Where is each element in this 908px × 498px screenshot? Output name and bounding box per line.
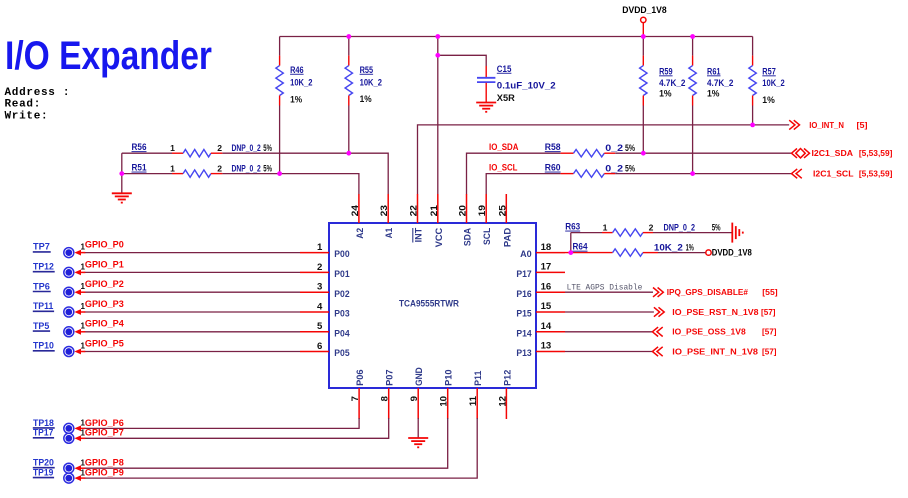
IC U1 TCA9555RTWR body: [329, 223, 536, 388]
svg-text:19: 19: [477, 205, 488, 216]
pin 25 PAD: [497, 194, 513, 247]
svg-text:10: 10: [439, 396, 450, 407]
svg-text:GPIO_P3: GPIO_P3: [85, 299, 124, 310]
junction: [641, 34, 646, 39]
svg-text:16: 16: [541, 281, 552, 292]
resistor R61 4.7K_2: [689, 37, 734, 174]
svg-text:C15: C15: [497, 64, 512, 74]
svg-text:P01: P01: [334, 269, 350, 280]
wire VCC to rail: [437, 37, 439, 195]
svg-text:R55: R55: [360, 65, 374, 75]
pin 12 P12: [497, 370, 513, 419]
svg-text:18: 18: [541, 242, 552, 253]
svg-text:DNP_0_2: DNP_0_2: [664, 222, 696, 232]
pin 19 SCL: [477, 194, 493, 245]
svg-text:1%: 1%: [686, 243, 694, 253]
pin 16 P16: [516, 281, 565, 299]
test point TP7: [33, 241, 86, 258]
svg-text:INT: INT: [414, 228, 425, 243]
svg-text:P05: P05: [334, 348, 350, 359]
off-page connector IPQ_GPS_DISABLE# [55]: [653, 287, 778, 297]
svg-text:TP7: TP7: [33, 241, 50, 252]
resistor R64 10K_2: [565, 242, 706, 257]
svg-text:R51: R51: [132, 163, 147, 173]
pin 10 P10: [439, 369, 455, 419]
junction: [568, 250, 573, 255]
svg-text:TP17: TP17: [33, 427, 53, 438]
svg-text:P16: P16: [516, 289, 531, 300]
svg-text:4.7K_2: 4.7K_2: [707, 78, 733, 88]
pin 23 A1: [379, 194, 395, 238]
svg-text:[57]: [57]: [762, 328, 777, 337]
svg-text:1%: 1%: [290, 95, 302, 105]
pin 14 P14: [516, 321, 565, 339]
junction: [346, 34, 351, 39]
pin 4 P03: [300, 301, 350, 319]
svg-text:GPIO_P5: GPIO_P5: [85, 338, 125, 349]
power symbol DVDD_1V8 right: [706, 248, 752, 258]
resistor R56 DNP_0_2: [122, 142, 272, 157]
svg-text:1%: 1%: [659, 89, 672, 99]
svg-text:R57: R57: [762, 66, 776, 76]
svg-text:1: 1: [317, 242, 323, 253]
svg-text:IO_SDA: IO_SDA: [489, 142, 519, 152]
wire IPQ_GPS_DISABLE# net: [565, 291, 653, 293]
svg-text:P00: P00: [334, 249, 349, 260]
svg-text:PAD: PAD: [502, 228, 513, 247]
svg-text:6: 6: [317, 341, 322, 352]
svg-text:[5,53,59]: [5,53,59]: [859, 170, 893, 179]
svg-text:12: 12: [497, 396, 508, 407]
svg-text:TP11: TP11: [33, 300, 53, 311]
pin 24 A2: [350, 194, 366, 239]
svg-text:P17: P17: [516, 269, 531, 280]
wire GPIO_P0 net: [85, 252, 301, 254]
junction: [641, 151, 646, 156]
ground below R51: [112, 193, 132, 202]
svg-text:GPIO_P4: GPIO_P4: [85, 319, 125, 330]
svg-text:GPIO_P2: GPIO_P2: [85, 279, 124, 290]
svg-text:22: 22: [409, 205, 420, 216]
svg-text:4.7K_2: 4.7K_2: [659, 78, 685, 88]
wire R58 to I2C1_SDA: [615, 152, 791, 154]
resistor R63 DNP_0_2: [565, 222, 732, 253]
svg-text:DVDD_1V8: DVDD_1V8: [712, 248, 752, 258]
svg-text:R61: R61: [707, 66, 721, 76]
net label GPIO_P5: [81, 338, 125, 350]
wire top power rail DVDD_1V8: [280, 36, 753, 38]
svg-text:10K_2: 10K_2: [360, 78, 382, 88]
net label GPIO_P6: [81, 418, 124, 429]
test point TP6: [33, 280, 86, 297]
svg-text:9: 9: [409, 396, 420, 401]
net label GPIO_P7: [81, 428, 124, 439]
pin 21 VCC: [429, 194, 445, 247]
test point TP20: [33, 457, 86, 474]
wire GPIO_P2 net: [85, 291, 301, 293]
off-page connector IO_PSE_RST_N_1V8 [57]: [654, 307, 776, 317]
svg-text:TP19: TP19: [33, 467, 53, 478]
svg-text:SDA: SDA: [463, 228, 474, 246]
svg-text:I2C1_SDA: I2C1_SDA: [812, 148, 854, 158]
svg-text:15: 15: [541, 301, 552, 312]
wire GPIO_P8 net: [85, 418, 448, 468]
svg-text:P06: P06: [355, 369, 366, 386]
resistor R60 0_2 5%: [545, 163, 635, 178]
svg-text:LTE AGPS Disable: LTE AGPS Disable: [567, 283, 643, 292]
pin 9 GND: [409, 367, 425, 419]
svg-text:5%: 5%: [625, 163, 635, 173]
svg-text:IO_PSE_RST_N_1V8: IO_PSE_RST_N_1V8: [672, 307, 759, 317]
svg-text:TP6: TP6: [33, 280, 50, 291]
wire GPIO_P6 net: [85, 418, 360, 428]
test point TP17: [33, 427, 86, 444]
svg-text:25: 25: [497, 204, 508, 216]
svg-text:1: 1: [170, 143, 175, 153]
pin 5 P04: [300, 321, 350, 339]
svg-text:8: 8: [380, 395, 391, 401]
svg-text:TP5: TP5: [33, 320, 49, 331]
svg-text:A0: A0: [520, 249, 532, 260]
svg-text:A2: A2: [355, 228, 366, 239]
pin 8 P07: [380, 369, 396, 419]
pin 17 P17: [516, 262, 565, 280]
svg-text:11: 11: [468, 395, 479, 406]
svg-text:7: 7: [350, 396, 361, 401]
net label GPIO_P0: [81, 240, 124, 252]
svg-text:P02: P02: [334, 289, 349, 300]
svg-text:13: 13: [541, 341, 552, 352]
svg-text:TP12: TP12: [33, 261, 54, 272]
net label GPIO_P9: [81, 468, 124, 479]
svg-text:0_2: 0_2: [605, 163, 623, 173]
pin 6 P05: [300, 341, 350, 359]
svg-text:Write:: Write:: [5, 111, 49, 123]
off-page connector I2C1_SCL [5,53,59]: [792, 169, 893, 179]
pin 15 P15: [516, 301, 565, 319]
svg-text:2: 2: [649, 222, 654, 232]
svg-text:TP10: TP10: [33, 340, 54, 351]
svg-text:R58: R58: [545, 142, 561, 152]
ground for GND pin 9: [408, 418, 428, 447]
wire R60 to I2C1_SCL: [615, 173, 791, 175]
svg-text:20: 20: [458, 205, 469, 216]
svg-text:P11: P11: [473, 370, 484, 386]
wire IO_PSE_RST_N_1V8 net: [565, 311, 654, 313]
svg-text:R60: R60: [545, 163, 561, 173]
svg-text:P14: P14: [516, 328, 532, 339]
pin 11 P11: [468, 370, 484, 419]
off-page connector IO_INT_N [5]: [789, 120, 868, 130]
pin 13 P13: [516, 341, 565, 359]
wire GPIO_P1 net: [85, 271, 301, 273]
wire GPIO_P4 net: [85, 331, 301, 333]
svg-text:10K_2: 10K_2: [290, 78, 312, 88]
svg-text:0.1uF_10V_2: 0.1uF_10V_2: [497, 81, 556, 91]
wire IO_PSE_INT_N_1V8 net: [565, 351, 652, 353]
junction: [690, 34, 695, 39]
resistor R58 0_2 5%: [545, 142, 635, 157]
wire GPIO_P5 net: [85, 351, 301, 353]
wire GPIO_P9 net: [85, 418, 478, 478]
svg-text:SCL: SCL: [482, 228, 493, 245]
svg-text:IO_PSE_INT_N_1V8: IO_PSE_INT_N_1V8: [672, 346, 758, 356]
svg-text:5%: 5%: [263, 163, 272, 173]
wire IO_INT_N from pin 22 to off-page: [418, 125, 790, 194]
svg-text:P10: P10: [444, 369, 455, 386]
svg-text:P15: P15: [516, 309, 532, 320]
svg-text:DNP_0_2: DNP_0_2: [232, 143, 261, 153]
pin 3 P02: [300, 282, 350, 300]
resistor R51 DNP_0_2: [122, 153, 272, 193]
svg-text:5%: 5%: [712, 222, 721, 232]
wire R51 to A2: [222, 174, 359, 195]
svg-text:1%: 1%: [360, 94, 372, 104]
svg-text:10K_2: 10K_2: [762, 78, 784, 88]
net label GPIO_P1: [81, 259, 125, 271]
svg-text:A1: A1: [384, 227, 395, 238]
svg-text:1: 1: [170, 163, 175, 173]
net label GPIO_P3: [81, 299, 124, 311]
svg-text:1: 1: [603, 222, 608, 232]
ground for R63 rotated: [731, 223, 733, 243]
pin 2 P01: [300, 262, 350, 280]
svg-text:P04: P04: [334, 328, 350, 339]
svg-text:DNP_0_2: DNP_0_2: [232, 163, 261, 173]
off-page connector IO_PSE_OSS_1V8 [57]: [652, 327, 776, 337]
svg-text:[5]: [5]: [857, 121, 868, 130]
net label GPIO_P4: [81, 319, 125, 331]
wire R56 to A1: [222, 153, 388, 194]
test point TP10: [33, 340, 86, 357]
svg-text:IO_PSE_OSS_1V8: IO_PSE_OSS_1V8: [672, 327, 746, 337]
junction: [435, 34, 440, 39]
off-page connector IO_PSE_INT_N_1V8 [57]: [652, 346, 776, 356]
resistor R55 10K_2: [345, 37, 382, 154]
svg-text:5%: 5%: [625, 143, 635, 153]
wire C15 branch: [438, 55, 486, 66]
svg-text:2: 2: [317, 262, 322, 273]
power symbol DVDD_1V8: [622, 5, 666, 36]
svg-text:Read:: Read:: [5, 99, 42, 111]
svg-text:R59: R59: [659, 66, 673, 76]
svg-text:IPQ_GPS_DISABLE#: IPQ_GPS_DISABLE#: [667, 287, 748, 297]
off-page connector I2C1_SDA [5,53,59]: [792, 148, 893, 158]
svg-text:24: 24: [350, 204, 361, 216]
svg-text:GND: GND: [414, 367, 425, 386]
svg-text:VCC: VCC: [434, 228, 445, 248]
svg-text:P07: P07: [385, 369, 396, 386]
test point TP5: [33, 320, 86, 337]
junction: [435, 53, 440, 58]
pin 20 SDA: [458, 194, 474, 246]
svg-text:[57]: [57]: [761, 308, 776, 317]
svg-text:TCA9555RTWR: TCA9555RTWR: [399, 298, 459, 308]
svg-text:X5R: X5R: [497, 93, 516, 103]
pin 1 P00: [300, 242, 350, 260]
svg-text:P03: P03: [334, 309, 349, 320]
capacitor C15 0.1uF_10V_2 X5R: [477, 64, 556, 103]
resistor R59 4.7K_2: [640, 37, 686, 154]
net label GPIO_P2: [81, 279, 124, 291]
svg-text:R64: R64: [573, 242, 588, 252]
wire IO_SCL from pin 19: [486, 174, 560, 195]
svg-text:10K_2: 10K_2: [654, 243, 683, 253]
svg-text:GPIO_P0: GPIO_P0: [85, 240, 124, 251]
svg-text:5%: 5%: [263, 143, 272, 153]
ground for C15: [476, 102, 496, 104]
svg-text:DVDD_1V8: DVDD_1V8: [622, 5, 666, 15]
test point TP19: [33, 467, 86, 484]
resistor R57 10K_2: [749, 37, 785, 125]
svg-text:R46: R46: [290, 65, 304, 75]
test point TP11: [33, 300, 86, 317]
junction: [119, 171, 124, 176]
svg-text:P12: P12: [502, 370, 513, 386]
svg-text:GPIO_P7: GPIO_P7: [85, 428, 124, 439]
pin 7 P06: [350, 369, 366, 419]
junction: [690, 171, 695, 176]
svg-text:IO_INT_N: IO_INT_N: [809, 120, 844, 130]
resistor R46 10K_2: [276, 37, 313, 174]
svg-text:23: 23: [379, 205, 390, 216]
svg-text:Address :: Address :: [5, 87, 71, 99]
svg-text:[57]: [57]: [762, 347, 777, 356]
svg-text:3: 3: [317, 282, 322, 293]
svg-text:GPIO_P9: GPIO_P9: [85, 468, 124, 479]
svg-text:I2C1_SCL: I2C1_SCL: [813, 169, 854, 179]
svg-text:R56: R56: [132, 142, 147, 152]
pin 22 INT: [409, 194, 425, 243]
svg-text:R63: R63: [565, 222, 580, 232]
svg-text:P13: P13: [516, 348, 531, 359]
svg-text:1%: 1%: [762, 95, 775, 105]
test point TP18: [33, 417, 86, 434]
svg-text:[55]: [55]: [762, 288, 778, 297]
svg-text:GPIO_P1: GPIO_P1: [85, 259, 125, 270]
svg-text:21: 21: [429, 204, 440, 216]
svg-text:17: 17: [541, 262, 552, 273]
svg-text:4: 4: [317, 301, 323, 312]
net label GPIO_P8: [81, 458, 125, 469]
svg-text:IO_SCL: IO_SCL: [489, 163, 518, 173]
wire IO_SDA from pin 20: [467, 153, 561, 194]
svg-text:14: 14: [541, 321, 552, 332]
svg-text:2: 2: [217, 163, 222, 173]
test point TP12: [33, 261, 86, 278]
pin 18 A0: [520, 242, 565, 260]
junction: [750, 123, 755, 128]
svg-text:2: 2: [217, 143, 222, 153]
svg-text:1%: 1%: [707, 89, 720, 99]
junction: [346, 151, 351, 156]
svg-text:0_2: 0_2: [605, 143, 623, 153]
svg-text:[5,53,59]: [5,53,59]: [859, 149, 893, 158]
wire GPIO_P7 net: [85, 418, 389, 438]
wire IO_PSE_OSS_1V8 net: [565, 331, 652, 333]
svg-text:I/O Expander: I/O Expander: [5, 34, 212, 78]
wire GPIO_P3 net: [85, 311, 301, 313]
svg-text:5: 5: [317, 321, 323, 332]
junction: [277, 171, 282, 176]
